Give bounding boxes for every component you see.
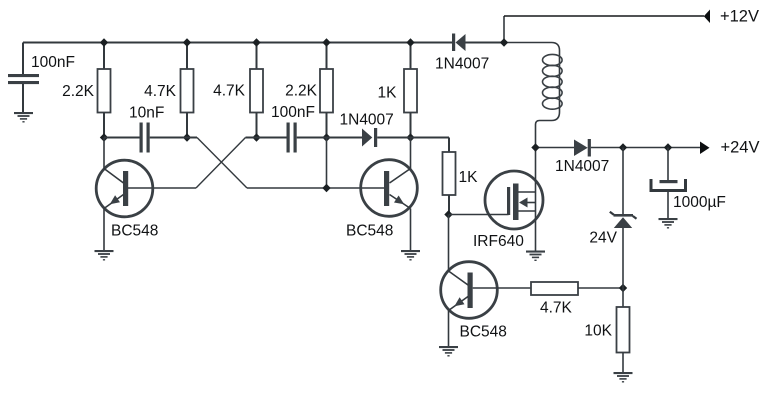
svg-text:24V: 24V (589, 230, 617, 247)
svg-text:100nF: 100nF (271, 104, 315, 121)
svg-text:IRF640: IRF640 (473, 233, 524, 250)
svg-text:4.7K: 4.7K (144, 83, 177, 100)
svg-text:4.7K: 4.7K (213, 83, 246, 100)
svg-text:1N4007: 1N4007 (555, 158, 609, 175)
svg-text:100nF: 100nF (31, 54, 75, 71)
svg-text:BC548: BC548 (111, 223, 158, 240)
svg-text:1N4007: 1N4007 (340, 112, 394, 129)
svg-text:2.2K: 2.2K (285, 83, 318, 100)
svg-text:1N4007: 1N4007 (435, 56, 489, 73)
svg-text:BC548: BC548 (346, 223, 393, 240)
svg-text:1000µF: 1000µF (673, 194, 726, 211)
svg-text:1K: 1K (459, 169, 479, 186)
svg-text:1K: 1K (378, 85, 398, 102)
svg-text:10K: 10K (584, 323, 612, 340)
svg-text:BC548: BC548 (460, 324, 507, 341)
svg-text:+24V: +24V (721, 139, 760, 157)
svg-text:4.7K: 4.7K (540, 300, 573, 317)
svg-text:+12V: +12V (720, 8, 759, 26)
svg-text:10nF: 10nF (129, 105, 164, 122)
svg-text:2.2K: 2.2K (62, 83, 95, 100)
